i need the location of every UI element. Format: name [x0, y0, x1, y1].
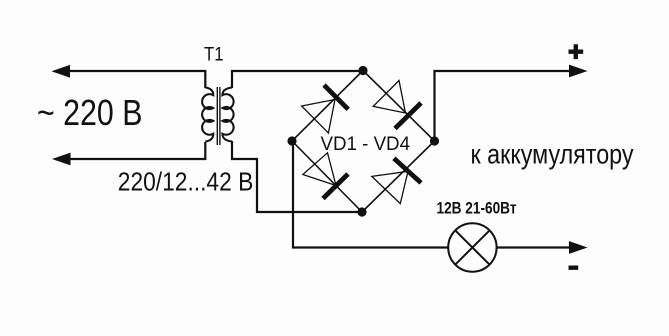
- diode VD2 triangle (top-right edge): [373, 81, 405, 114]
- bridge edge bottom-right: [362, 141, 435, 212]
- bridge edge top-left: [292, 71, 363, 142]
- svg-text:12В 21-60Вт: 12В 21-60Вт: [437, 199, 517, 218]
- arrow minus (right): [569, 241, 588, 254]
- transformer core line 2: [219, 87, 221, 145]
- transformer T1 secondary winding: [222, 88, 233, 142]
- transformer T1 primary winding: [202, 88, 213, 142]
- diode VD3 cathode bar: [323, 174, 348, 199]
- diode VD3 triangle (bottom-left edge): [303, 153, 336, 186]
- wire primary top: [56, 71, 205, 88]
- wire primary bottom: [56, 142, 205, 159]
- bridge edge top-right: [363, 71, 435, 142]
- svg-text:T1: T1: [204, 45, 224, 66]
- svg-text:VD1 - VD4: VD1 - VD4: [321, 134, 411, 155]
- svg-text:220/12...42 В: 220/12...42 В: [118, 169, 254, 197]
- node bottom: [357, 207, 366, 216]
- svg-text:~ 220 В: ~ 220 В: [37, 92, 143, 133]
- transformer core line 1: [216, 87, 218, 145]
- diode VD1 triangle (top-left edge): [302, 100, 335, 134]
- node left: [287, 136, 296, 145]
- lamp X line 2: [455, 230, 489, 264]
- bridge edge bottom-left: [292, 141, 362, 212]
- minus terminal symbol: [569, 266, 579, 270]
- diode VD1 cathode bar: [324, 85, 348, 109]
- wire minus branch: left node down to lamp: [293, 141, 448, 248]
- lamp HL1 circle: [448, 223, 496, 271]
- wire lamp to minus: [497, 246, 581, 248]
- plus terminal symbol: [569, 44, 584, 59]
- node top: [358, 66, 367, 75]
- arrow plus (right): [569, 65, 588, 78]
- arrow primary bottom (left): [52, 153, 71, 166]
- diode VD4 triangle (bottom-right edge): [372, 171, 408, 203]
- wire secondary top to bridge: [232, 71, 363, 88]
- node right: [430, 136, 439, 145]
- wire plus branch: right node up to +: [435, 71, 582, 141]
- svg-text:к аккумулятору: к аккумулятору: [471, 139, 634, 170]
- diode VD2 cathode bar: [395, 103, 421, 129]
- arrow primary top (left): [52, 65, 71, 78]
- lamp X line 1: [455, 230, 489, 264]
- wire secondary bottom to bridge bottom node: [232, 141, 362, 212]
- diode VD4 cathode bar: [394, 158, 421, 183]
